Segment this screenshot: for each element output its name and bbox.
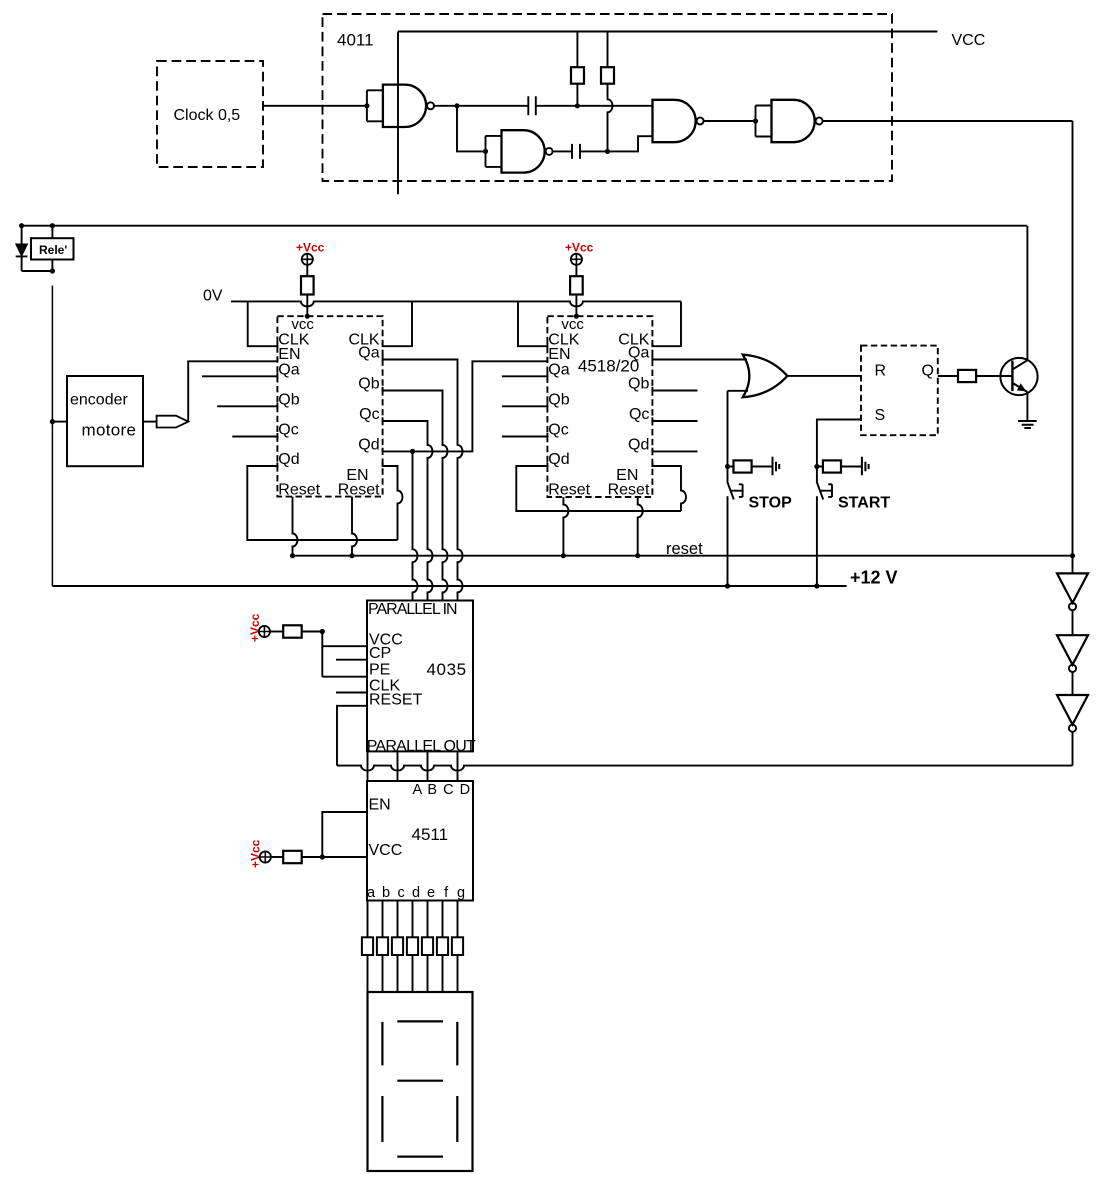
wire +Vcc to VCC and PE pins: [322, 632, 367, 677]
4035 RESET wire: [337, 702, 367, 765]
4035 parallel out pin B: [397, 751, 399, 781]
U4 Qd left loop to EN right: [247, 463, 397, 541]
inverter U6A: [1057, 573, 1088, 603]
U4 Qa stub: [202, 373, 277, 377]
U4 Reset pin 1 wire: [293, 497, 298, 556]
reset line: [293, 555, 1073, 557]
clock source box: [157, 61, 263, 167]
inverter U6C: [1057, 695, 1088, 725]
wire node down to U1B input: [457, 106, 486, 152]
push button STOP: [734, 460, 752, 472]
svg-text:Qb: Qb: [358, 376, 379, 393]
U5 Qc stub left: [502, 433, 548, 437]
U5 Qc stub right: [652, 417, 697, 421]
U5 Qd left loop to EN right: [516, 463, 681, 512]
counter U5 (4518/20) dashed box: [547, 316, 652, 497]
svg-text:Qd: Qd: [278, 451, 299, 468]
U4 CLK left wire from 0V: [248, 301, 278, 346]
svg-text:PARALLEL OUT: PARALLEL OUT: [367, 738, 476, 755]
wire inverters to 4035 RESET: [337, 766, 1073, 771]
4035 CLK stub: [336, 689, 367, 693]
U4 Qb stub: [217, 403, 277, 407]
svg-text:motore: motore: [82, 420, 137, 439]
svg-text:+Vcc: +Vcc: [565, 241, 594, 255]
7-segment display box: [368, 992, 473, 1171]
NAND gate U2B input bracket: [756, 106, 772, 137]
U5 Qa out wire to OR gate: [652, 356, 747, 360]
4035 parallel out pin C: [427, 751, 429, 781]
svg-text:A B C D: A B C D: [413, 782, 472, 798]
wire U1A out to node: [434, 105, 457, 107]
svg-text:Reset: Reset: [548, 482, 590, 499]
svg-text:b: b: [382, 885, 390, 901]
wire S input from START node: [817, 420, 861, 467]
4035 parallel out pin D: [457, 751, 459, 781]
svg-text:VCC: VCC: [952, 32, 986, 49]
svg-text:Qa: Qa: [278, 361, 299, 378]
NAND gate U1B: [502, 130, 545, 172]
wire rail to encoder: [52, 421, 67, 423]
NAND gate U1A input bracket: [367, 90, 383, 121]
U5 Qb stub left: [502, 403, 548, 407]
OR gate U3: [743, 355, 788, 398]
svg-text:VCC: VCC: [369, 842, 403, 859]
transistor Q1: [1000, 358, 1037, 395]
counter U4 (4518) dashed box: [277, 316, 382, 496]
svg-text:4011: 4011: [337, 31, 374, 50]
svg-text:f: f: [444, 885, 449, 901]
4511 VCC pin: [322, 854, 367, 858]
svg-text:RESET: RESET: [369, 691, 423, 708]
wire relay pins: [22, 226, 53, 271]
svg-text:Qa: Qa: [548, 361, 569, 378]
wire inv2 to inv3: [1072, 673, 1074, 696]
VCC rail: [398, 31, 937, 33]
NAND gate U2A: [653, 100, 696, 142]
resistor R1: [576, 32, 578, 68]
U4 Qd out wire and cascade to U5 EN: [383, 358, 548, 452]
+12V line: [52, 585, 846, 587]
svg-text:vcc: vcc: [291, 316, 314, 333]
wire U2A out to U2B: [704, 120, 756, 122]
svg-text:+Vcc: +Vcc: [296, 241, 325, 255]
svg-text:Qc: Qc: [629, 406, 649, 423]
wire OR output to RS latch R: [787, 375, 861, 377]
+Vcc symbol for 4035: [248, 613, 262, 642]
resistor R4: [575, 265, 577, 276]
svg-text:Clock 0,5: Clock 0,5: [174, 107, 241, 124]
svg-text:e: e: [427, 885, 435, 901]
resistor R6: [271, 856, 283, 858]
U4 Qa out wire down to U6: [383, 356, 463, 601]
U5 Qa stub left: [502, 373, 548, 377]
wire inv1 to inv2: [1072, 611, 1074, 636]
encoder motore box: [67, 376, 143, 466]
capacitor C1: [457, 96, 577, 115]
wire through U1A down: [397, 32, 399, 195]
wire clock to U1A input: [263, 105, 367, 107]
svg-text:PE: PE: [369, 662, 390, 679]
IC 4511 box: [367, 781, 473, 901]
svg-text:vcc: vcc: [561, 316, 584, 333]
right rail from 4011 out: [1072, 121, 1074, 573]
svg-text:Qc: Qc: [359, 406, 379, 423]
svg-text:d: d: [412, 885, 420, 901]
diode D1: [21, 226, 23, 244]
wire Q output: [938, 375, 958, 377]
relay supply line: [22, 225, 1027, 227]
U4 EN left wire from encoder: [188, 358, 277, 422]
NAND gate U1B input bracket: [486, 136, 502, 167]
4035 parallel out pin A: [367, 751, 369, 781]
resistor R5: [270, 631, 283, 633]
encoder output arrow: [143, 421, 157, 423]
7-segment digit: [382, 1021, 457, 1156]
junction dots: [364, 103, 369, 108]
svg-text:Qd: Qd: [628, 436, 649, 453]
U4 Qb out wire down to U6: [383, 387, 448, 601]
U4 Reset pin 2 wire: [352, 497, 357, 556]
RS latch dashed box: [861, 346, 938, 436]
svg-text:Qd: Qd: [358, 436, 379, 453]
push button START: [823, 460, 841, 472]
wire R2 down hopping clock line: [608, 84, 613, 152]
svg-text:CP: CP: [369, 645, 391, 662]
wire node to U2A upper input: [577, 105, 652, 107]
4035 CP stub: [336, 656, 367, 660]
svg-text:Qb: Qb: [548, 392, 569, 409]
svg-text:Qd: Qd: [548, 451, 569, 468]
svg-text:STOP: STOP: [749, 494, 793, 511]
segment resistors R10-R16: [367, 901, 369, 993]
svg-text:Qb: Qb: [628, 376, 649, 393]
+Vcc symbol for 4511: [249, 839, 263, 868]
svg-text:EN: EN: [369, 797, 391, 814]
NAND gate U1A: [383, 85, 426, 127]
wire collector to relay line: [1026, 226, 1028, 361]
svg-text:0V: 0V: [203, 288, 223, 305]
svg-text:PARALLEL IN: PARALLEL IN: [368, 601, 457, 618]
ground under Q1: [1018, 421, 1037, 428]
left rail down to +12V: [51, 286, 53, 587]
svg-text:S: S: [875, 407, 886, 424]
U5 CLK right wire to 0V: [652, 301, 681, 346]
svg-text:Reset: Reset: [278, 482, 320, 499]
wire U2B output to right rail: [823, 120, 1073, 122]
U4 CLK right wire to 0V: [383, 301, 412, 346]
U4 Qc out wire down to U6: [383, 417, 433, 600]
U5 Reset pin 2 wire: [638, 497, 643, 556]
svg-text:encoder: encoder: [70, 392, 128, 409]
svg-text:START: START: [838, 494, 890, 511]
svg-text:Reset: Reset: [608, 482, 650, 499]
U5 Reset pin 1 wire: [563, 497, 568, 556]
IC 4011 dashed boundary: [323, 14, 893, 181]
wire emitter to ground: [1026, 392, 1028, 421]
4511 EN loop to VCC node: [322, 809, 367, 858]
U4 Qc stub: [232, 433, 277, 437]
svg-text:Qa: Qa: [358, 345, 379, 362]
IC 4035 box: [367, 601, 473, 752]
U4 EN right wire: [383, 463, 403, 541]
U4 Qd wire down to U6: [413, 451, 418, 600]
svg-text:4518/20: 4518/20: [578, 356, 639, 375]
U5 EN right wire: [652, 463, 686, 512]
capacitor C2: [553, 144, 608, 159]
svg-text:Reset: Reset: [338, 482, 380, 499]
wire inv3 down: [1072, 732, 1074, 765]
svg-text:Qc: Qc: [278, 422, 298, 439]
NAND gate U2B: [772, 100, 815, 142]
resistor R7 base: [958, 370, 976, 382]
svg-text:Q: Q: [922, 362, 934, 379]
inverter U6B: [1057, 635, 1088, 665]
svg-text:Rele': Rele': [39, 243, 67, 257]
svg-text:a: a: [367, 885, 376, 901]
svg-text:c: c: [397, 885, 404, 901]
svg-text:Qb: Qb: [278, 392, 299, 409]
svg-text:reset: reset: [666, 540, 703, 558]
svg-text:+12 V: +12 V: [850, 568, 898, 588]
svg-text:g: g: [457, 885, 465, 901]
wire OR lower input from STOP node: [728, 391, 749, 467]
svg-text:4035: 4035: [427, 660, 467, 679]
U5 Qd stub right: [652, 448, 697, 452]
svg-text:Qc: Qc: [548, 422, 568, 439]
relay K1 box: [31, 238, 74, 259]
resistor R2: [607, 32, 609, 68]
U5 Qb stub right: [652, 387, 697, 391]
resistor R3: [306, 265, 308, 276]
U5 CLK left wire from 0V: [518, 301, 547, 346]
svg-text:4511: 4511: [412, 825, 449, 844]
svg-text:R: R: [875, 362, 887, 379]
0V line: [231, 301, 681, 306]
wire C2 node to U2A lower input: [608, 136, 653, 151]
